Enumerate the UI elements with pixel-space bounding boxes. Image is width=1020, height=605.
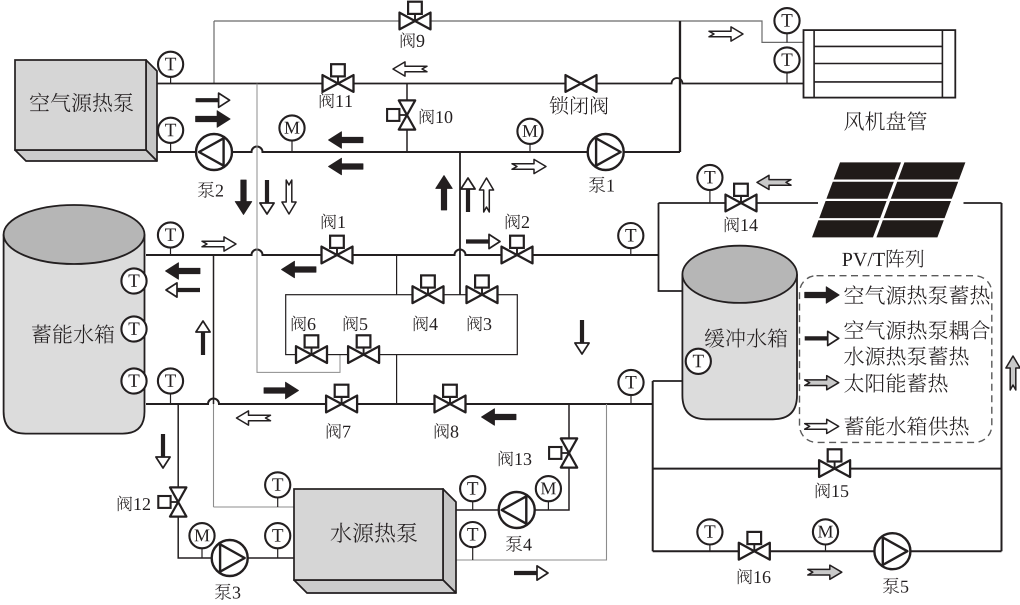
wire drop x=396.6 tank-line to loop top [396, 255, 398, 295]
legend: ASHP charging [805, 287, 840, 304]
T sensor on solar line [709, 189, 711, 204]
wire bypass loop rectangle [286, 295, 518, 355]
T sensor fan-coil return [786, 71, 788, 84]
flow arrow solid left below valve1 [282, 261, 317, 278]
valve 阀2 [502, 236, 533, 264]
air-source heat pump unit [146, 60, 157, 161]
flow arrow hollow left under tank line [237, 411, 271, 425]
flow arrow black-white right before valve2 [466, 234, 500, 248]
wire left riser x=213.5 tank line to WSHP [213, 255, 215, 404]
pump 泵5 [874, 533, 910, 569]
T sensor WSHP left inlet [277, 496, 279, 507]
valve 阀9 [400, 2, 431, 30]
wire solar right downcomer x=1001.5 [1001, 203, 1003, 551]
wire solar line y=203 [659, 202, 819, 204]
valve 阀13 (vertical) [549, 438, 577, 467]
wire WSHP upper-left inlet y=507 [214, 506, 295, 508]
T sensor tank upper [121, 268, 146, 293]
flow arrow black-white up [461, 178, 475, 212]
flow arrow hollow right near tank [202, 237, 236, 251]
flow arrow solid right before valve7 [264, 382, 299, 399]
legend box [800, 276, 992, 443]
energy storage tank [4, 235, 145, 434]
buffer tank [682, 274, 797, 419]
M sensor on pump1 line [529, 142, 531, 152]
fan coil unit [804, 30, 956, 98]
legend: ASHP coupled WSHP charging [805, 331, 839, 345]
T sensor on tank lower line right [630, 394, 632, 405]
flow arrow black-white left near tank [166, 283, 200, 297]
M sensor on heat-pump return [291, 139, 293, 152]
T sensor tank middle [121, 316, 146, 341]
T sensor on tank lower line [170, 392, 172, 404]
pump 泵4 [499, 492, 535, 528]
flow arrow gray up right side [1006, 356, 1020, 390]
wire heat-pump return line y=152 [157, 147, 680, 153]
flow arrow solid down [235, 180, 252, 215]
water-source heat pump unit [443, 489, 456, 593]
pump 泵2 [196, 134, 232, 170]
flow arrow solid left lower [329, 158, 364, 175]
legend: storage tank heating [805, 419, 839, 433]
valve 阀10 (vertical) [387, 100, 415, 129]
pump 泵3 [212, 540, 248, 576]
flow arrow solid left upper [329, 132, 364, 149]
wire buffer tank lower-left link y=381 [653, 380, 683, 382]
valve 阀5 [348, 335, 379, 363]
T sensor on heat-pump outlet [170, 75, 172, 83]
wire valve10 branch x=407 [406, 84, 408, 153]
legend: solar charging [805, 376, 839, 390]
valve 阀6 [296, 335, 327, 363]
flow arrow gray right near valve16 [808, 565, 842, 579]
wire fan-coil supply riser x=680 [679, 21, 681, 152]
wire gray riser x=257 with jog to valve5/6 segment [257, 84, 340, 373]
wire pump4 line y=510 and valve13 riser x=569 [456, 404, 569, 510]
T sensor near buffer tank [630, 247, 632, 255]
flow arrow solid up [436, 176, 453, 211]
valve 阀15 [819, 449, 850, 477]
pump 泵1 [588, 134, 624, 170]
T sensor WSHP right inlet [472, 500, 474, 510]
valve 阀14 [726, 184, 757, 212]
flow arrow black-white up mid [196, 321, 210, 355]
T sensor on tank top line [170, 246, 172, 255]
M sensor on pump5 line [825, 543, 827, 551]
T sensor buffer tank [686, 349, 711, 374]
T sensor on heat-pump return [170, 141, 172, 152]
flow arrow solid left after valve8 [482, 409, 517, 426]
lock valve 锁闭阀 [566, 75, 597, 92]
wire buffer tank upper-left link [659, 203, 684, 291]
valve 阀8 [435, 385, 466, 413]
wire WSHP lower-right outlet y=560 riser x=606.5 [456, 404, 607, 560]
flow arrow solid left near tank [166, 263, 201, 280]
valve 阀1 [322, 236, 353, 264]
T sensor tank lower [121, 368, 146, 393]
flow arrow black-white down [260, 180, 274, 214]
wire valve12 branch and pump3 line [178, 404, 294, 558]
wire storage tank top line y=255 [146, 250, 659, 256]
wire buffer tank left downcomer x=652.7 [652, 381, 654, 551]
flow arrow solid right [196, 111, 231, 128]
wire pump5 line y=551.2 [653, 550, 1002, 552]
flow arrow gray left near valve14 [757, 175, 791, 189]
wire vertical x=214 from bypass to heat-pump outlet [213, 21, 215, 84]
flow arrow hollow right under pump1 [512, 159, 546, 173]
flow arrow black-white down to valve12 [156, 434, 170, 468]
T sensor fan-coil supply [786, 32, 788, 43]
wire riser x=460 return line to loop top [459, 152, 461, 295]
valve 阀3 [467, 275, 498, 303]
wire valve15 bypass line y=468.6 [653, 468, 1002, 470]
wire heat-pump outlet line y=83.5 to fan coil [157, 78, 804, 83]
T sensor on pump5 line [709, 543, 711, 551]
flow arrow hollow down [282, 180, 296, 214]
valve 阀11 [323, 64, 354, 92]
valve 阀16 [739, 532, 770, 560]
wire drop x=396.6 loop bottom to valve7 line [396, 355, 398, 404]
M sensor on pump3 line [201, 547, 203, 558]
T sensor WSHP left outlet [277, 547, 279, 558]
flow arrow black-white right (ASHP charge) [196, 93, 230, 107]
T sensor WSHP right outlet [472, 546, 474, 560]
flow arrow black-white right under WSHP [514, 566, 548, 580]
flow arrow hollow right to fan coil [709, 27, 743, 41]
valve 阀7 [326, 385, 357, 413]
flow arrow black-white down mid [575, 320, 589, 354]
flow arrow hollow up [479, 178, 493, 212]
wire storage tank lower line y=404 [146, 399, 653, 405]
M sensor on pump4 line [547, 500, 549, 510]
flow arrow hollow left near valve11 [393, 62, 427, 76]
wire top bypass line y=21 with step to fan coil [214, 21, 804, 42]
PV/T solar array [812, 162, 965, 237]
valve 阀12 (vertical) [158, 487, 186, 516]
valve 阀4 [413, 275, 444, 303]
